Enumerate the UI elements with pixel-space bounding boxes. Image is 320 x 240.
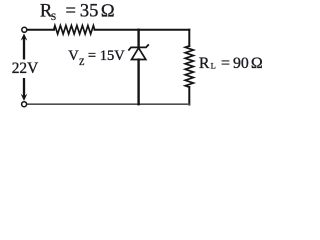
22V arrowhead down <box>21 94 28 101</box>
wire zener branch upper segment <box>137 30 139 47</box>
svg-text:90: 90 <box>233 55 249 72</box>
svg-text:15V: 15V <box>100 48 126 64</box>
22V arrow shaft lower <box>23 78 25 99</box>
wire bottom <box>27 103 189 105</box>
label VZ = 15V <box>68 48 125 67</box>
svg-text:S: S <box>51 13 56 23</box>
22V arrowhead up <box>21 33 28 40</box>
wire top from source terminal to resistor RS <box>28 29 55 31</box>
wire right branch lower segment <box>188 87 190 105</box>
svg-text:22V: 22V <box>12 60 39 77</box>
svg-text:R: R <box>199 55 210 72</box>
source terminal node top-left (open circle) <box>22 27 27 32</box>
zener diode DZ cathode bar with bent ends <box>129 45 148 50</box>
resistor RL (vertical zigzag) <box>185 46 193 87</box>
label RL = 90 ohms <box>199 55 263 72</box>
label RS = 35 ohms <box>40 1 115 23</box>
svg-text:=: = <box>88 48 96 64</box>
svg-text:=: = <box>221 55 230 72</box>
svg-text:L: L <box>211 61 216 71</box>
svg-text:Z: Z <box>79 57 85 67</box>
zener diode DZ anode triangle <box>132 48 146 60</box>
svg-text:V: V <box>68 48 79 64</box>
svg-text:35: 35 <box>80 1 99 21</box>
svg-text:Ω: Ω <box>101 1 115 21</box>
wire top from RS to top-right corner <box>95 29 190 31</box>
wire right branch upper segment <box>188 30 190 46</box>
svg-text:Ω: Ω <box>251 55 263 72</box>
resistor RS (zigzag) <box>54 26 95 35</box>
source terminal node bottom-left (open circle) <box>22 102 27 107</box>
22V arrow shaft upper <box>23 36 25 60</box>
wire zener branch lower segment <box>137 60 139 105</box>
svg-text:=: = <box>66 1 76 21</box>
